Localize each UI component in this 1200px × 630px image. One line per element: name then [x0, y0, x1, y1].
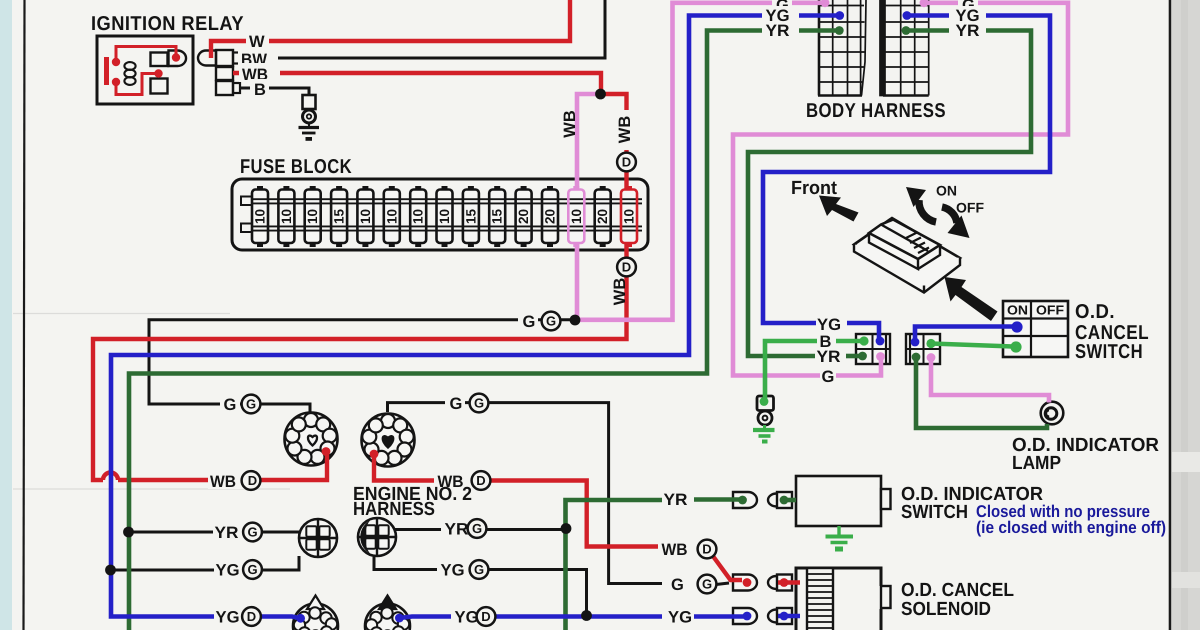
- junction YG row on YG bus: [105, 565, 116, 576]
- junction YR row on YR bus: [123, 527, 134, 538]
- wire WB right segment (C2 to solenoid plug): [374, 454, 658, 547]
- connector circle D at 250,616.5: [242, 607, 261, 626]
- wire YG (dark blue) body harness right to connector block: [763, 16, 1050, 324]
- fuse F5 10A: [362, 186, 368, 191]
- relay connector block B: [216, 81, 233, 95]
- connector circle D at 251,480.5: [242, 471, 261, 490]
- label YR row right: [441, 520, 479, 537]
- svg-text:D: D: [702, 542, 711, 557]
- wire G bus horizontal (node G): [149, 320, 570, 413]
- svg-text:YG: YG: [817, 316, 841, 334]
- wire W (red, relay to top): [211, 0, 570, 58]
- svg-text:SWITCH: SWITCH: [1075, 341, 1143, 363]
- engine harness round connector C2: [362, 414, 415, 467]
- relay lower contact: [151, 79, 168, 94]
- svg-text:YR: YR: [766, 22, 790, 40]
- svg-text:B: B: [254, 81, 266, 99]
- relay internal wire upper (red): [116, 47, 176, 63]
- connector circle D at 626.5,162: [617, 153, 636, 172]
- relay internal wire lower (red): [116, 74, 157, 95]
- left page border: [24, 0, 25, 630]
- connector circle D at 626.5,267: [617, 258, 636, 277]
- pin WB at connector C2: [370, 450, 379, 459]
- pin B at ground connector: [760, 397, 769, 406]
- pin YR left grid: [835, 26, 844, 35]
- O.D. indicator switch box: [796, 476, 881, 526]
- svg-text:WB: WB: [611, 278, 629, 306]
- rocker switch illustration: base plate: [854, 218, 960, 286]
- label YR row left: [213, 523, 251, 540]
- svg-text:D: D: [248, 473, 257, 488]
- svg-text:15: 15: [332, 209, 347, 225]
- label WB rotated (red fuse feed): [615, 110, 635, 150]
- label B: [250, 79, 269, 97]
- label YG row right: [437, 560, 475, 577]
- fuse block body: [232, 179, 648, 250]
- wire YG-D row (blue) C4 to solenoid: [399, 617, 474, 619]
- fuse block bus rails: [244, 199, 642, 230]
- svg-text:10: 10: [437, 209, 452, 224]
- connector circle G at 251,404: [242, 395, 261, 414]
- svg-text:20: 20: [595, 209, 610, 224]
- wire WB (pink) junction to fuse F13: [577, 94, 598, 190]
- svg-text:YR: YR: [817, 348, 841, 366]
- wire B (relay to ground G1): [240, 88, 309, 95]
- connector circle D at 486,616.5: [477, 607, 496, 626]
- connector circle D at 707,549: [698, 540, 717, 559]
- svg-text:20: 20: [516, 209, 531, 224]
- svg-text:O.D. CANCEL: O.D. CANCEL: [901, 580, 1014, 601]
- arrow pointing at switch base: [945, 277, 998, 321]
- label G bus mid: [518, 312, 538, 329]
- svg-text:YR: YR: [664, 491, 688, 509]
- O.D. cancel solenoid tab: [881, 586, 891, 608]
- svg-text:10: 10: [384, 209, 399, 224]
- body harness left grid: [818, 0, 866, 96]
- square connector S2 (YR row): [358, 518, 396, 556]
- connector circle G at 479,403: [470, 394, 489, 413]
- fuse F7 10A: [415, 186, 421, 191]
- pin YG at plug B: [780, 612, 789, 621]
- svg-text:FUSE BLOCK: FUSE BLOCK: [240, 156, 352, 178]
- pin B at cancel switch ON: [1010, 341, 1021, 352]
- wire YR (dark green) bus to indicator switch plugs: [566, 500, 663, 630]
- svg-text:YR: YR: [215, 524, 239, 542]
- plug pair solenoid red row: [733, 575, 757, 591]
- round connector C4 (bottom): [365, 604, 410, 630]
- svg-text:D: D: [247, 609, 256, 624]
- pin YR at plug A: [738, 496, 747, 505]
- svg-text:15: 15: [463, 209, 478, 225]
- rocker switch knob: [869, 220, 940, 260]
- connector circle D at 481,480.5: [472, 471, 491, 490]
- body harness right grid: [880, 0, 929, 96]
- svg-text:G: G: [671, 576, 684, 594]
- svg-text:G: G: [546, 314, 556, 329]
- fuse bodies fill: [252, 190, 268, 244]
- fuse block left tabs: [241, 197, 252, 206]
- connector circle G at 707,584: [698, 575, 717, 594]
- fuse F2 10A: [283, 186, 289, 191]
- wire YR (dark green) body harness right to connector block: [748, 31, 1031, 357]
- fuse F13 10A: [573, 186, 579, 191]
- pin YR right grid: [902, 26, 911, 35]
- ground G1 (relay B wire) connector box: [303, 95, 316, 109]
- ground G1 ring terminal: [303, 110, 316, 123]
- junction WB split at fuse feed: [595, 89, 606, 100]
- wire WB (red) fuse F15 down-left to WB-D row: [93, 243, 627, 480]
- svg-text:D: D: [481, 609, 490, 624]
- svg-text:WB: WB: [616, 116, 634, 144]
- relay connector block WB: [216, 67, 233, 80]
- svg-text:10: 10: [279, 209, 294, 224]
- svg-text:YG: YG: [441, 562, 465, 580]
- fuse F3 10A: [310, 186, 316, 191]
- svg-text:10: 10: [622, 209, 637, 224]
- pin YG at plug A: [743, 612, 752, 621]
- wire WB hop over YG bus: [103, 473, 118, 481]
- svg-text:BODY HARNESS: BODY HARNESS: [806, 100, 946, 122]
- fuse F11 20A: [521, 186, 527, 191]
- ignition relay box: [97, 36, 193, 104]
- label G row left: [220, 395, 240, 412]
- fuse F10 15A: [494, 186, 500, 191]
- solenoid coil hatch: [807, 568, 833, 630]
- svg-text:G: G: [247, 525, 257, 540]
- wire YR row right segment: [395, 528, 566, 531]
- wire G from connector C2 to plug: [388, 403, 663, 584]
- fuse F4 15A: [336, 186, 342, 191]
- svg-text:G: G: [474, 562, 484, 577]
- label YG-D row right: [451, 607, 489, 624]
- fuse F6 10A: [389, 186, 395, 191]
- svg-text:G: G: [523, 313, 536, 331]
- svg-text:G: G: [822, 368, 835, 386]
- wire YR (dark green) body harness left bus: [129, 31, 839, 630]
- svg-text:10: 10: [358, 209, 373, 224]
- label WB row left: [208, 471, 248, 489]
- pin G left grid: [821, 0, 830, 7]
- svg-text:G: G: [472, 521, 482, 536]
- label YR left grid: [762, 22, 799, 38]
- pin YG left grid: [835, 11, 844, 20]
- pin WB at connector C1: [322, 447, 331, 456]
- svg-text:OFF: OFF: [956, 200, 984, 216]
- label YR right grid: [949, 22, 986, 38]
- faint scan artifact lines: [13, 313, 230, 315]
- svg-text:ON: ON: [1007, 303, 1028, 318]
- label YG row left: [214, 560, 252, 577]
- wire B (bright green) connector block to O.D. cancel switch: [931, 344, 1013, 347]
- label G left grid: [772, 0, 792, 12]
- svg-text:WB: WB: [210, 473, 236, 491]
- pin YR at plug B: [780, 496, 789, 505]
- label YG-D row left: [214, 607, 252, 624]
- curved arrow to ON: [919, 200, 936, 222]
- wire YG row left segment: [111, 556, 300, 570]
- junction YR row on YR branch: [561, 523, 572, 534]
- pin YR at J2: [912, 353, 921, 362]
- label G row right: [445, 394, 465, 411]
- svg-text:D: D: [476, 473, 485, 488]
- label W: [246, 32, 269, 50]
- wire YG (dark blue) body harness left bus: [111, 16, 840, 619]
- fuse F9 15A: [468, 186, 474, 191]
- relay coil: [124, 62, 135, 70]
- svg-text:YG: YG: [455, 609, 479, 627]
- svg-text:20: 20: [543, 209, 558, 224]
- O.D. cancel solenoid box: [796, 568, 881, 630]
- O.D. cancel switch table: [1003, 301, 1068, 357]
- svg-text:10: 10: [411, 209, 426, 224]
- svg-text:10: 10: [305, 209, 320, 224]
- wire WB (red) relay to fuse F15: [233, 73, 627, 190]
- plug pair YR row: [733, 492, 757, 508]
- relay internal pins (red dots): [112, 58, 120, 66]
- svg-text:SOLENOID: SOLENOID: [901, 599, 991, 620]
- pin B at J2: [926, 339, 935, 348]
- pin G at J2: [927, 353, 936, 362]
- fuse F8 10A: [442, 186, 448, 191]
- svg-text:SWITCH: SWITCH: [901, 502, 968, 523]
- pin YR at J1: [858, 352, 867, 361]
- pin YG at connector C3: [296, 614, 305, 623]
- fuse F1 10A: [257, 186, 263, 191]
- svg-text:OFF: OFF: [1036, 303, 1064, 318]
- pin YG right grid: [903, 11, 912, 20]
- ground G1 symbol: [308, 123, 310, 126]
- relay contact bar (red): [104, 57, 109, 85]
- label YG left grid: [762, 6, 799, 23]
- square connector S1 (YR row): [299, 519, 337, 557]
- wire YG (blue) connector block to O.D. cancel switch: [915, 327, 1014, 343]
- connector circle G at 477,528.5: [468, 519, 487, 538]
- wire WB into connector C1: [118, 452, 327, 480]
- Front arrow: [819, 196, 859, 222]
- pin G at J1: [876, 352, 885, 361]
- left scan margin strip: [0, 0, 12, 630]
- fuse F14 20A: [600, 186, 606, 191]
- connector block J1 (4-pin, left): [856, 334, 890, 364]
- relay upper contact: [151, 53, 168, 67]
- relay bullet connector: [198, 51, 216, 66]
- wire YR plug to indicator switch: [784, 498, 796, 503]
- svg-text:YG: YG: [668, 609, 692, 627]
- wire BW (relay to top): [240, 0, 605, 58]
- svg-text:Front: Front: [791, 178, 838, 199]
- ground G2 (indicator switch, green): [837, 526, 840, 536]
- svg-text:ON: ON: [936, 183, 957, 199]
- pin B at J1: [859, 336, 868, 345]
- svg-text:D: D: [622, 155, 631, 170]
- connector circle G at 479,569.5: [470, 560, 489, 579]
- wire B (bright green) connector block to ground G3: [765, 341, 817, 402]
- label BW: [238, 48, 278, 67]
- svg-text:10: 10: [253, 209, 268, 224]
- svg-text:YR: YR: [445, 521, 469, 539]
- relay armature: [169, 51, 187, 67]
- label WB row right: [434, 471, 474, 489]
- svg-text:IGNITION RELAY: IGNITION RELAY: [91, 13, 244, 35]
- connector circle G at 251,532: [243, 523, 262, 542]
- pin G right grid: [920, 0, 929, 7]
- svg-text:O.D.: O.D.: [1075, 301, 1115, 323]
- label YG right grid: [949, 6, 986, 23]
- svg-text:HARNESS: HARNESS: [353, 499, 435, 520]
- plug pair solenoid blue row: [733, 608, 757, 624]
- svg-text:LAMP: LAMP: [1012, 453, 1061, 474]
- svg-text:WB: WB: [561, 110, 579, 138]
- right scan margin: [1172, 0, 1200, 630]
- pin YG at J2: [911, 338, 920, 347]
- rocker OVERDRIVE marks: [906, 233, 929, 254]
- fuse F12 20A: [547, 186, 553, 191]
- connector block J2 (4-pin, right): [906, 334, 940, 364]
- svg-text:15: 15: [490, 209, 505, 225]
- O.D. indicator lamp: [1041, 402, 1064, 425]
- connector circle G at 251,569.5: [243, 560, 262, 579]
- svg-text:G: G: [224, 396, 237, 414]
- svg-text:G: G: [450, 395, 463, 413]
- relay connector block W/BW: [216, 50, 233, 66]
- svg-text:WB: WB: [662, 541, 688, 559]
- right page border: [1169, 0, 1172, 630]
- pin YG at J1: [876, 337, 885, 346]
- engine harness round connector C1: [285, 413, 338, 466]
- pin YG at connector C4: [395, 614, 404, 623]
- ground G3 (B wire, green): [763, 425, 766, 428]
- pin WB at plug A: [743, 578, 752, 587]
- curved arrow to OFF: [942, 207, 957, 223]
- svg-text:(ie closed with engine off): (ie closed with engine off): [976, 518, 1166, 537]
- fuse F15 10A: [626, 186, 632, 191]
- connector circle G at 551,321: [542, 312, 561, 331]
- O.D. indicator switch tab: [881, 489, 891, 509]
- wire WB plug to solenoid: [778, 580, 800, 584]
- B-wire ring terminal: [758, 411, 772, 425]
- svg-text:G: G: [702, 577, 712, 592]
- B-wire ground connector box: [757, 396, 774, 411]
- wire G (pink) body harness left to G bus node: [573, 3, 825, 320]
- svg-text:YG: YG: [216, 609, 240, 627]
- junction YG row on YG-D row: [581, 610, 592, 621]
- junction G bus / WB pink: [570, 315, 581, 326]
- svg-text:YR: YR: [956, 22, 980, 40]
- wire YR (dark green) to indicator lamp: [916, 357, 1047, 428]
- wire G (pink) body harness right to connector block: [733, 3, 1068, 376]
- svg-text:G: G: [246, 397, 256, 412]
- svg-text:10: 10: [569, 209, 584, 224]
- svg-text:YG: YG: [216, 562, 240, 580]
- svg-text:G: G: [247, 562, 257, 577]
- svg-text:D: D: [622, 260, 631, 275]
- pin YG at cancel switch ON: [1011, 321, 1022, 332]
- wire G (pink) to indicator lamp: [931, 358, 1049, 403]
- label G right grid: [958, 0, 978, 12]
- wire YR row left segment: [129, 531, 301, 534]
- svg-text:G: G: [474, 396, 484, 411]
- pin WB at plug B: [780, 578, 789, 587]
- wire YG row right segment to YG-D junction: [374, 557, 587, 614]
- label WB: [239, 63, 280, 82]
- round connector C3 (bottom): [293, 604, 338, 630]
